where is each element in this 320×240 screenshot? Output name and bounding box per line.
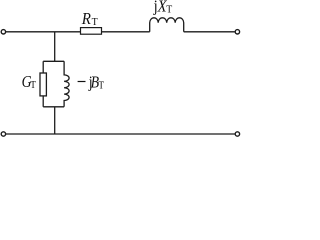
wire: top rail, inductor to terminal 2	[184, 31, 235, 33]
terminal: input top (port 1 +)	[1, 30, 5, 34]
wire: stub from top bar to G_T box	[42, 61, 44, 73]
wire: stub from G_T box to bottom bar	[42, 96, 44, 107]
terminal: output bottom (port 2 -)	[235, 132, 239, 136]
svg-text:RT: RT	[81, 10, 99, 28]
wire: top rail, terminal 1 to resistor R_T	[6, 31, 81, 33]
svg-text:jXT: jXT	[153, 0, 173, 16]
inductor L2 (shunt susceptance -jB_T, coil)	[64, 61, 69, 107]
inductor L1 (series reactance jX_T)	[150, 18, 184, 32]
terminal: output top (port 2 +)	[235, 30, 239, 34]
svg-text:GT: GT	[22, 73, 37, 92]
wire: top rail, resistor to inductor	[102, 31, 150, 33]
svg-text:jBT: jBT	[88, 73, 105, 92]
label: minus sign of -jB_T	[78, 81, 86, 83]
wire: shunt top bar	[43, 60, 64, 62]
resistor G1 (shunt conductance G_T, box)	[40, 73, 46, 96]
wire: shunt bottom bar	[43, 106, 64, 108]
wire: junction drop from top rail to shunt branch	[54, 32, 56, 62]
wire: shunt branch to bottom rail	[54, 107, 56, 134]
terminal: input bottom (port 1 -)	[1, 132, 5, 136]
resistor R1 (series resistance R_T)	[81, 28, 102, 35]
wire: bottom rail	[6, 133, 235, 135]
